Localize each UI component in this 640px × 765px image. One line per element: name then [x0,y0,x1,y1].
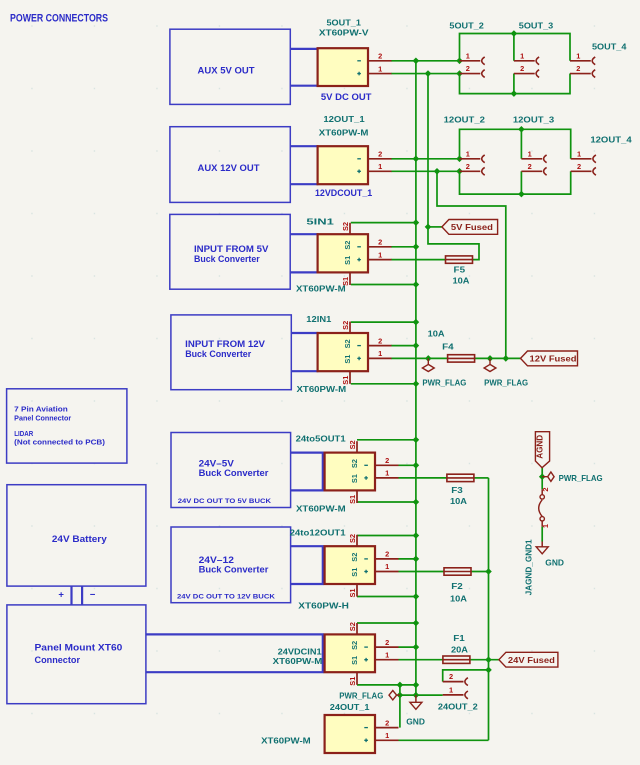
24OUT_1 pin 2 [375,718,399,727]
wire 24V Battery to Panel Mount (-) [82,586,96,605]
wire 5OUT group bottom rail (+5V) [460,74,571,94]
svg-text:Buck Converter: Buck Converter [199,565,269,575]
svg-text:S1: S1 [350,474,359,483]
svg-text:XT60PW-M: XT60PW-M [297,384,347,394]
svg-text:10A: 10A [450,496,467,506]
24to5OUT1 pin S2 [348,440,357,452]
svg-text:2: 2 [528,162,532,171]
sheet Panel Mount XT60 Connector [7,605,146,704]
svg-text:5V Fused: 5V Fused [451,222,493,232]
fuse F2 [444,568,471,575]
wire sheet A to 5OUT_1 [290,49,318,86]
svg-text:1: 1 [378,64,382,73]
junctions +24V net [485,568,492,673]
svg-text:F5: F5 [454,264,466,274]
label 24to12OUT1 reference [290,527,346,537]
svg-text:S1: S1 [343,256,352,265]
svg-text:XT60PW-M: XT60PW-M [273,656,323,666]
wire 24V Battery to Panel Mount (+) [58,586,71,605]
wire 24to5OUT1 S2 to GND rail [357,439,416,441]
svg-text:INPUT FROM 5V: INPUT FROM 5V [194,244,269,254]
svg-text:1: 1 [520,51,524,60]
junctions GND net top section [413,30,518,97]
connector 12IN1 (XT60PW-M) body [318,333,368,371]
connector 5IN1 (XT60PW-M) body [318,234,368,272]
net label AGND (global, vertical) [535,432,550,468]
12IN1 pin S1 [341,371,350,385]
wire sheet F to 24to5OUT1 [291,452,323,492]
svg-text:S1: S1 [350,568,359,577]
sheet 24V Battery [7,485,146,586]
svg-text:1: 1 [378,349,382,358]
24to12OUT1 pin S2 [348,534,357,546]
svg-text:Panel Mount XT60: Panel Mount XT60 [35,642,123,652]
net label 5V Fused (global) [442,220,498,235]
label 24to5OUT1 value XT60PW-M [296,504,346,514]
24to12OUT1 pin S1 [348,584,357,598]
label PWR_FLAG [559,473,603,483]
wire 24to5OUT1 S1 to GND rail [357,501,416,503]
net label 24V Fused (global) [499,652,558,667]
jumper JAGND_GND1 body [539,489,545,526]
connector 5OUT_3 pin 1 [514,51,539,64]
wire 12IN1 S2 to GND rail [351,321,416,323]
svg-text:2: 2 [541,487,550,491]
svg-text:1: 1 [449,685,453,694]
svg-text:1: 1 [528,149,532,158]
svg-text:(Not connected to PCB): (Not connected to PCB) [14,440,105,447]
svg-text:1: 1 [577,149,581,158]
junctions +12V net [425,168,509,362]
sheet 24V-12 Buck Converter [171,527,291,603]
svg-text:Buck Converter: Buck Converter [194,254,260,264]
wire 12OUT group bottom rail (+12V) [460,171,571,194]
wire F1 output to 24V Fused label [470,659,499,661]
svg-text:2: 2 [378,238,382,247]
label 24OUT_1 value XT60PW-M [261,735,311,745]
label F4 reference [442,342,454,352]
svg-text:2: 2 [385,456,389,465]
svg-text:S2: S2 [343,339,352,348]
svg-text:XT60PW-M: XT60PW-M [319,127,369,137]
wire GND to 24OUT_2 pin 1 [400,694,443,696]
5IN1 pin S2 [341,222,350,234]
wire AGND label to jumper [541,468,543,490]
svg-text:F2: F2 [451,581,463,591]
label PWR_FLAG [339,691,383,701]
svg-text:24to12OUT1: 24to12OUT1 [290,527,346,537]
svg-text:F1: F1 [453,633,465,643]
svg-text:2: 2 [378,52,382,61]
wire sheet D to 12IN1 [291,333,318,371]
connector 5OUT_2 pin 1 [460,51,485,64]
wire GND drop to 24OUT_1 pin 2 [399,685,401,728]
svg-text:2: 2 [520,64,524,73]
connector 24to5OUT1 (XT60PW-M) body [325,453,375,491]
wire sheet I to 24VDCIN1 [146,633,323,673]
connector 5OUT_1 (XT60PW-V) body [318,48,368,86]
sheet AUX 5V OUT [170,29,290,104]
svg-text:1: 1 [378,250,382,259]
junctions GND net bottom [397,682,420,699]
label 24to12OUT1 value XT60PW-H [298,600,349,610]
svg-text:+: + [58,590,64,601]
wire 12OUT group top rail (GND) [460,129,571,159]
junctions GND rail at 24to12OUT1 [413,532,420,600]
wire 5IN1 S1 to GND rail [351,284,416,286]
wire +24V vertical rail [488,478,490,740]
label 5OUT_2 reference [449,21,484,31]
svg-text:12OUT_2: 12OUT_2 [444,115,486,125]
svg-text:Buck Converter: Buck Converter [199,468,269,478]
svg-text:24OUT_1: 24OUT_1 [330,702,370,712]
svg-text:24V–5V: 24V–5V [199,459,235,469]
sheet INPUT FROM 12V Buck Converter [171,315,291,390]
svg-text:2: 2 [466,64,470,73]
connector 5OUT_3 pin 2 [514,64,539,77]
fuse F5 [446,256,473,263]
svg-text:5OUT_3: 5OUT_3 [519,21,554,31]
svg-text:5IN1: 5IN1 [306,216,334,226]
svg-text:S2: S2 [350,459,359,468]
connector 24OUT_2 pin 1 [443,685,468,698]
svg-text:7 Pin Aviation: 7 Pin Aviation [14,407,68,414]
svg-text:PWR_FLAG: PWR_FLAG [339,691,383,701]
connector 12OUT_2 pin 1 [460,149,485,162]
connector 12OUT_3 pin 2 [521,162,546,175]
svg-text:24V DC OUT TO 5V BUCK: 24V DC OUT TO 5V BUCK [178,498,271,505]
5OUT_1 pin 2 [368,52,392,61]
svg-text:S1: S1 [343,355,352,364]
24to5OUT1 pin 2 [375,456,399,465]
junctions GND net 12V section [413,126,525,197]
power flag PWR_FLAG at GND bottom [389,691,400,700]
wire sheet C to 5IN1 [290,234,318,272]
wire jumper to GND symbol [541,527,543,542]
24VDCIN1 pin S2 [348,622,357,634]
wire +5V: 5OUT_1 pin 1 to 5OUT_2 pin 2 [391,73,459,75]
svg-text:2: 2 [449,672,453,681]
5IN1 pin S1 [341,272,350,286]
svg-text:10A: 10A [450,594,467,604]
connector 5OUT_4 pin 2 [570,64,595,77]
svg-text:2: 2 [378,336,382,345]
svg-text:GND: GND [406,716,425,726]
wire +5V vertical rail to F5 [428,74,479,260]
connector 24VDCIN1 (XT60PW-M) body [325,634,375,672]
wire 24to12OUT1 S1 to GND rail [357,596,416,598]
svg-text:1: 1 [385,469,389,478]
svg-text:5V DC OUT: 5V DC OUT [321,92,372,102]
svg-text:PWR_FLAG: PWR_FLAG [422,378,466,388]
svg-text:24OUT_2: 24OUT_2 [438,701,478,711]
5IN1 pin 2 [368,238,392,247]
svg-text:12V Fused: 12V Fused [530,354,577,364]
net label 12V Fused (global) [521,351,578,366]
label 24VDCIN1 reference [278,647,322,657]
label 12OUT_2 reference [444,115,486,125]
wire 24to12OUT1 S2 to GND rail [357,535,416,537]
junctions +5V net [425,70,463,230]
junctions GND rail at 5IN1 [413,219,420,287]
svg-text:INPUT FROM 12V: INPUT FROM 12V [185,339,266,349]
24VDCIN1 pin S1 [348,672,357,686]
label 5IN1 reference [306,216,334,226]
net label 5V DC OUT [321,92,372,102]
wire 12IN1 pin 1 to F4 [391,357,448,359]
wire +24V to 24OUT_1 pin 1 [399,739,489,741]
ground GND (bottom) [410,695,422,709]
wire F2 output to +24V rail [471,571,489,573]
label 12IN1 value XT60PW-M [297,384,347,394]
wire GND: 12OUT_1 pin 2 to 12OUT_2 pin 1 [391,158,459,160]
svg-text:2: 2 [576,64,580,73]
label GND [406,716,425,726]
label PWR_FLAG [422,378,466,388]
svg-text:PWR_FLAG: PWR_FLAG [484,378,528,388]
svg-text:2: 2 [466,162,470,171]
label 24VDCIN1 value XT60PW-M [273,656,323,666]
24to5OUT1 pin S1 [348,490,357,504]
svg-text:12IN1: 12IN1 [306,314,331,324]
label 24OUT_2 reference [438,701,478,711]
wire 12IN1 pin 2 to GND rail [391,345,416,347]
label 5IN1 value XT60PW-M [296,284,346,294]
svg-text:12OUT_4: 12OUT_4 [590,135,632,145]
wire 24to12OUT1 pin 1 to F2 [399,571,445,573]
svg-text:Connector: Connector [35,655,81,665]
svg-text:1: 1 [385,650,389,659]
wire +12V rail down to F4 output [437,171,506,358]
svg-text:2: 2 [378,150,382,159]
wire 24VDCIN1 S2 to GND rail [357,622,416,624]
svg-text:AUX 12V OUT: AUX 12V OUT [198,163,260,174]
svg-text:S2: S2 [348,534,357,543]
24VDCIN1 pin 2 [375,638,399,647]
junctions GND rail at 24to5OUT1 [413,437,420,506]
svg-text:12VDCOUT_1: 12VDCOUT_1 [315,188,372,198]
wire sheet B to 12OUT_1 [290,146,318,184]
power flag PWR_FLAG at F4 output [484,358,496,371]
label 5OUT_3 reference [519,21,554,31]
connector 24to12OUT1 (XT60PW-H) body [325,546,375,584]
svg-text:10A: 10A [453,276,470,286]
24VDCIN1 pin 1 [375,650,399,659]
wire 5IN1 pin 2 to GND rail [391,246,416,248]
24to5OUT1 pin 1 [375,469,399,478]
sheet INPUT FROM 5V Buck Converter [170,214,290,289]
svg-text:24V Fused: 24V Fused [508,655,555,665]
wire F4 output to 12V Fused label [475,357,521,359]
power flag PWR_FLAG at 12IN1 (pre-fuse) [422,358,434,371]
svg-text:XT60PW-H: XT60PW-H [298,600,349,610]
label 12OUT_1 reference [323,114,365,124]
wire 5OUT group top rail (GND) [460,34,571,61]
24OUT_1 pin 1 [375,731,399,740]
svg-text:5OUT_4: 5OUT_4 [592,41,627,51]
connector 12OUT_4 pin 1 [571,149,596,162]
label GND [545,558,564,568]
label 12OUT_4 reference [590,135,632,145]
svg-text:S2: S2 [350,641,359,650]
label 12OUT_1 value XT60PW-M [319,127,369,137]
svg-text:S1: S1 [348,588,357,597]
wire 24to5OUT1 pin 1 to F3 [399,477,447,479]
svg-text:XT60PW-V: XT60PW-V [319,28,369,38]
svg-text:24to5OUT1: 24to5OUT1 [296,434,346,444]
label 5OUT_1 value XT60PW-V [319,28,369,38]
svg-text:XT60PW-M: XT60PW-M [296,284,346,294]
svg-text:S2: S2 [348,622,357,631]
sheet 7 Pin Aviation Panel Connector (LiDAR, not connected) [7,389,127,463]
svg-text:12OUT_3: 12OUT_3 [513,115,555,125]
svg-text:1: 1 [466,149,470,158]
sheet 24V-5V Buck Converter [171,433,291,508]
12IN1 pin 1 [368,349,392,358]
12IN1 pin S2 [341,321,350,333]
svg-text:S2: S2 [343,241,352,250]
wire 24VDCIN1 pin 2 to GND rail [399,646,416,648]
svg-text:PWR_FLAG: PWR_FLAG [559,473,603,483]
label 24to5OUT1 reference [296,434,346,444]
12IN1 pin 2 [368,336,392,345]
svg-text:5OUT_1: 5OUT_1 [327,17,362,27]
label F2 value 10A [450,594,467,604]
junction AGND net [539,473,546,480]
svg-text:10A: 10A [428,328,445,338]
svg-text:Buck Converter: Buck Converter [185,349,251,359]
label F5 value 10A [453,276,470,286]
connector 24OUT_2 pin 2 [443,672,468,685]
24to12OUT1 pin 2 [375,550,399,559]
svg-text:S2: S2 [350,553,359,562]
svg-text:2: 2 [577,162,581,171]
label F3 value 10A [450,496,467,506]
svg-text:2: 2 [385,638,389,647]
wire branch to 5V Fused label [428,226,442,228]
5IN1 pin 1 [368,250,392,259]
svg-text:1: 1 [385,562,389,571]
svg-text:POWER CONNECTORS: POWER CONNECTORS [10,13,108,25]
wire GND: 5OUT_1 pin 2 to 5OUT_2 pin 1 [391,60,459,62]
connector 12OUT_3 pin 1 [521,149,546,162]
label F1 reference [453,633,465,643]
svg-text:24V DC OUT TO 12V BUCK: 24V DC OUT TO 12V BUCK [177,593,275,600]
junctions GND rail at 24VDCIN1 [413,620,420,651]
fuse F1 [443,656,470,663]
wire 24VDCIN1 S1 to GND rail [357,684,416,686]
wire +12V: 12OUT_1 pin 1 to 12OUT_2 pin 2 [391,170,459,172]
sheet AUX 12V OUT [170,127,290,203]
label F3 reference [451,485,463,495]
connector 5OUT_4 pin 1 [570,51,595,64]
connector 12OUT_1 (XT60PW-M) body [318,146,368,184]
label F1 value 20A [451,644,468,654]
label 12OUT_3 reference [513,115,555,125]
label 5OUT_1 reference [327,17,362,27]
junctions GND rail at 12IN1 [413,319,420,387]
svg-text:1: 1 [466,51,470,60]
wire 24to12OUT1 pin 2 to GND rail [399,558,416,560]
label 12IN1 reference [306,314,331,324]
wire 24VDCIN1 pin 1 to F1 [399,659,443,661]
12OUT_1 pin 1 [368,162,392,171]
fuse F4 [448,355,475,362]
svg-text:1: 1 [378,162,382,171]
svg-text:AGND: AGND [535,435,545,459]
svg-text:S2: S2 [341,222,350,231]
label F2 reference [451,581,463,591]
svg-text:Panel Connector: Panel Connector [14,416,71,423]
label F4 value 10A [428,328,445,338]
connector 24OUT_1 (XT60PW-M) body [325,715,375,753]
connector 5OUT_2 pin 2 [460,64,485,77]
wire +24V to 24OUT_2 pin 2 [443,670,489,682]
svg-text:S1: S1 [348,677,357,686]
svg-text:2: 2 [385,718,389,727]
label 24OUT_1 reference [330,702,370,712]
svg-text:S2: S2 [348,440,357,449]
svg-text:1: 1 [541,524,550,528]
jumper pin number 2 [541,487,550,491]
net label 12VDCOUT_1 [315,188,372,198]
12OUT_1 pin 2 [368,150,392,159]
power flag PWR_FLAG at AGND [542,472,554,481]
svg-text:24V Battery: 24V Battery [52,534,108,544]
wire GND vertical rail [415,61,417,695]
svg-text:GND: GND [545,558,564,568]
label PWR_FLAG [484,378,528,388]
svg-text:XT60PW-M: XT60PW-M [261,735,311,745]
connector 12OUT_2 pin 2 [460,162,485,175]
svg-text:AUX 5V OUT: AUX 5V OUT [198,66,255,77]
wire 5IN1 pin 1 to F5 [391,259,445,261]
jumper pin number 1 [541,524,550,528]
svg-text:1: 1 [576,51,580,60]
fuse F3 [447,474,474,481]
svg-text:F4: F4 [442,342,454,352]
svg-text:24V–12: 24V–12 [199,555,234,565]
wire 5IN1 S2 to GND rail [351,222,416,224]
label 5OUT_4 reference [592,41,627,51]
ground GND (under jumper JAGND_GND1) [536,542,548,554]
svg-text:20A: 20A [451,644,468,654]
svg-text:−: − [90,590,96,601]
wire 24to5OUT1 pin 2 to GND rail [399,464,416,466]
svg-text:S1: S1 [348,495,357,504]
svg-text:JAGND_GND1: JAGND_GND1 [523,539,533,595]
svg-text:S2: S2 [341,321,350,330]
connector 12OUT_4 pin 2 [571,162,596,175]
svg-text:XT60PW-M: XT60PW-M [296,504,346,514]
wire sheet H to 24to12OUT1 [291,545,323,585]
svg-text:LIDAR: LIDAR [14,431,33,438]
svg-text:5OUT_2: 5OUT_2 [449,21,484,31]
wire 12IN1 S1 to GND rail [351,383,416,385]
svg-text:2: 2 [385,550,389,559]
svg-text:F3: F3 [451,485,463,495]
svg-text:12OUT_1: 12OUT_1 [323,114,365,124]
svg-text:S1: S1 [350,656,359,665]
svg-text:1: 1 [385,731,389,740]
wire F3 output to +24V rail [474,477,489,479]
label F5 reference [454,264,466,274]
24to12OUT1 pin 1 [375,562,399,571]
label JAGND_GND1 reference [523,539,533,595]
5OUT_1 pin 1 [368,64,392,73]
